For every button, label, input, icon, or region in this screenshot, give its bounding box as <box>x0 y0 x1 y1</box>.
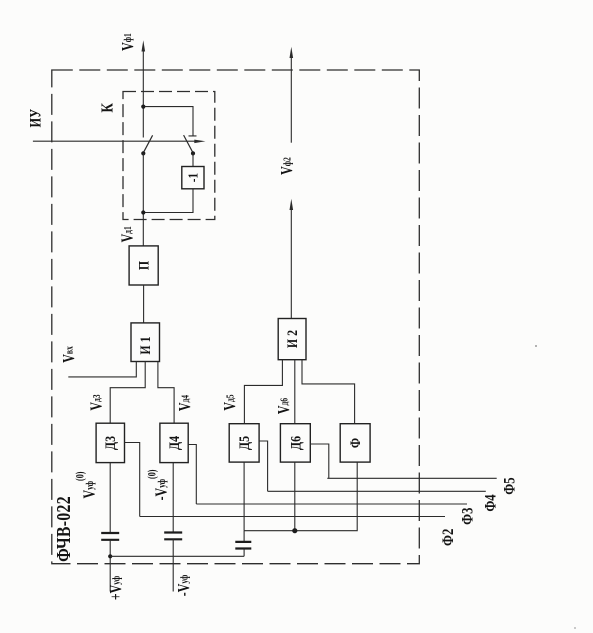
arrow ИУ line <box>194 140 205 144</box>
svg-text:Д3: Д3 <box>102 436 118 450</box>
svg-text:-1: -1 <box>185 173 200 182</box>
svg-text:ИУ: ИУ <box>27 108 45 127</box>
wire output Ф4 <box>268 490 486 492</box>
wire Д6 output to Ф5 line <box>310 444 329 478</box>
wire И2 to Ф <box>302 360 355 424</box>
wire Д5 down to common node line <box>243 462 245 531</box>
node junction Д6 on common line <box>292 528 297 533</box>
svg-text:Д4: Д4 <box>166 436 182 450</box>
svg-text:Vвх: Vвх <box>60 346 78 363</box>
wire Д5 output to Ф4 line <box>259 441 268 491</box>
block Д6 <box>280 424 310 462</box>
svg-text:Vф1: Vф1 <box>119 33 137 51</box>
wire output Ф2 <box>140 516 445 518</box>
wire Д3 to capacitor C1 <box>109 463 111 533</box>
svg-text:К: К <box>98 103 117 113</box>
wire output Ф5 <box>327 477 496 479</box>
node junction on Vф1 line <box>141 105 145 109</box>
svg-text:П: П <box>135 260 151 270</box>
speck (scan artifact) <box>535 345 537 347</box>
wire +Vуф rail horizontal <box>110 555 244 557</box>
capacitor C3 <box>235 542 251 549</box>
wire И2 to Д6 <box>294 360 296 424</box>
arrow Vф2 mid <box>290 199 294 210</box>
svg-text:-Vуф(0): -Vуф(0) <box>145 470 171 501</box>
wire Vвх input to И1 <box>68 362 136 377</box>
module boundary ФЧВ-022 (dashed enclosure) <box>52 70 420 564</box>
switch S2 arm (right) <box>184 135 193 153</box>
block Д4 <box>160 423 188 462</box>
svg-text:Vд1: Vд1 <box>119 226 137 243</box>
wire Д3 output to Ф2 line <box>125 443 140 517</box>
wire Д4 output to Ф3 line <box>188 445 196 505</box>
arrow Vф2 top <box>290 47 294 58</box>
svg-text:Ф4: Ф4 <box>483 494 501 511</box>
block И1 <box>131 323 160 362</box>
node switch S2 lower contact <box>191 151 195 155</box>
wire ИУ control input horizontal <box>33 140 196 142</box>
wire Д4 to capacitor C2 <box>172 463 174 533</box>
svg-text:Vд6: Vд6 <box>275 398 293 415</box>
svg-text:Vф2: Vф2 <box>278 157 296 175</box>
wire inverter output to main line <box>143 189 193 213</box>
wire Vф2 lower segment from И2 <box>290 207 292 319</box>
wire C3 to +Vуф rail <box>243 549 245 557</box>
wire Vф2 output upper segment <box>290 55 292 143</box>
svg-text:Ф3: Ф3 <box>459 508 477 525</box>
svg-text:-Vуф: -Vуф <box>175 574 193 596</box>
svg-text:И 1: И 1 <box>137 336 153 354</box>
node junction on +Vуф rail <box>108 554 112 558</box>
wire C1 to +Vуф terminal <box>109 540 111 592</box>
svg-text:Vд5: Vд5 <box>221 394 239 411</box>
switch S1 arm (left) <box>143 135 152 153</box>
capacitor C2 <box>164 533 182 540</box>
svg-text:И 2: И 2 <box>284 330 300 348</box>
arrow Vф1 <box>142 40 146 51</box>
block Д5 <box>229 424 259 462</box>
wire main line down from S1 to П <box>142 153 144 246</box>
wire Vф1 output vertical <box>142 49 144 138</box>
node switch S1 lower contact <box>141 151 145 155</box>
wire common line to Ф bottom <box>244 462 357 531</box>
block Д3 <box>96 423 124 462</box>
capacitor C1 <box>101 533 119 540</box>
svg-text:ФЧВ-022: ФЧВ-022 <box>52 496 74 562</box>
svg-text:Д5: Д5 <box>236 436 252 450</box>
commutator K dashed box <box>123 92 215 220</box>
block П <box>129 246 158 285</box>
inverter block -1 <box>182 167 204 189</box>
block И2 <box>278 319 306 360</box>
svg-text:Vуф(0): Vуф(0) <box>73 472 99 499</box>
wire И1 to Д4 <box>158 362 174 424</box>
wire from S2 down to inverter <box>192 153 194 166</box>
wire output Ф3 <box>196 503 467 505</box>
svg-text:Vд3: Vд3 <box>88 394 106 411</box>
wire И1 to Д3 <box>110 362 145 424</box>
wire Д6 down to common node <box>294 462 296 531</box>
wire C2 to -Vуф terminal <box>172 539 174 591</box>
wire branch from node to right switch <box>143 107 196 136</box>
svg-text:Vд4: Vд4 <box>176 395 194 412</box>
svg-text:Ф: Ф <box>347 438 363 448</box>
wire И2 to Д5 <box>244 360 282 424</box>
node junction inverter output on main line <box>141 210 145 214</box>
block Ф <box>340 424 370 462</box>
wire П to И1 <box>143 285 145 323</box>
svg-text:Ф5: Ф5 <box>501 477 519 494</box>
svg-text:Ф2: Ф2 <box>440 529 458 546</box>
wire common line to capacitor C3 <box>243 531 245 542</box>
svg-text:Д6: Д6 <box>287 436 303 450</box>
speck (scan artifact) <box>574 627 576 629</box>
